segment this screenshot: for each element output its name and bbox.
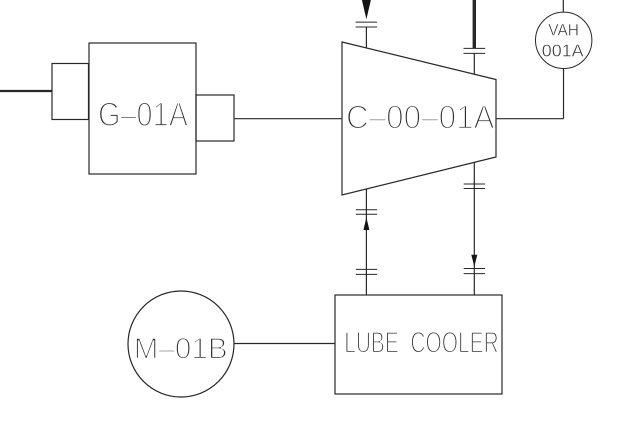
arrow: flow up into compressor (left leg) [363,218,369,231]
wire: stub above VAH bubble [562,0,564,12]
wire: gearbox to compressor [234,118,342,120]
compressor C-00-01A body [342,42,496,195]
svg-text:M–01B: M–01B [134,333,228,366]
gearbox G-01A body [89,43,196,174]
instrument bubble VAH 001A [536,12,592,68]
wire: shaft stub into gearbox G-01A [0,90,52,92]
wire: suction into compressor top [365,27,367,48]
gearbox G-01A right coupling [196,95,234,141]
svg-text:G–01A: G–01A [98,96,188,134]
flange pair: right leg lower [464,269,485,274]
svg-text:VAH: VAH [548,21,579,40]
wire: motor to cooler [234,343,336,345]
svg-text:C–00–01A: C–00–01A [346,100,495,137]
wire: thick seal supply line (top right) [473,0,476,48]
svg-text:001A: 001A [542,40,584,60]
gearbox G-01A left coupling [52,64,89,120]
motor M-01B body [128,291,234,397]
flange pair: right leg upper [464,184,485,189]
wire: lube oil supply (right leg, compressor to cooler) [473,162,475,295]
lube cooler body [335,295,502,394]
svg-text:LUBE COOLER: LUBE COOLER [344,326,499,359]
flange pair: compressor suction [356,22,378,27]
wire: riser to instrument VAH 001A [563,68,565,118]
flange pair: left leg lower [356,269,377,274]
arrow: flow down into cooler (right leg) [471,255,477,267]
wire: lube oil return (left leg, compressor to cooler) [365,189,367,295]
wire: seal line into compressor casing [473,53,475,74]
flange pair: seal supply [464,48,486,53]
wire: compressor discharge to VAH tap [496,118,564,120]
arrow: flow into compressor suction (top left) [360,0,374,19]
flange pair: left leg upper [356,210,377,215]
